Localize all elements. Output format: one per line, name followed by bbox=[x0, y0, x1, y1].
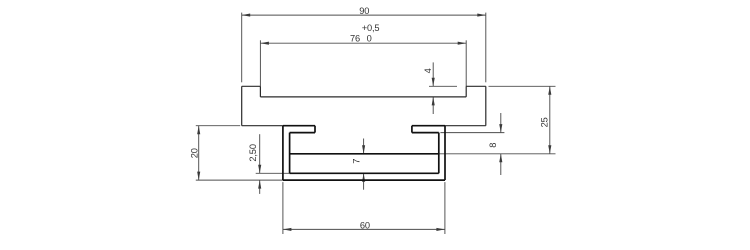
svg-text:4: 4 bbox=[423, 68, 433, 73]
channel outer right wall bbox=[444, 126, 446, 180]
svg-text:25: 25 bbox=[540, 117, 550, 127]
channel outer left wall bbox=[282, 126, 284, 180]
right lip underside bbox=[412, 132, 439, 134]
svg-text:7: 7 bbox=[352, 159, 362, 164]
dim 90 extension line right bbox=[485, 13, 487, 83]
groove right wall bbox=[465, 86, 467, 97]
dim 25/8 extension line bottom bbox=[439, 153, 556, 155]
dim 8 leader lower bbox=[500, 154, 502, 175]
left lip edge bbox=[314, 126, 316, 133]
arrow 90 right bbox=[477, 14, 486, 17]
dim 2,50 extension line bbox=[256, 172, 290, 174]
channel inner floor bbox=[290, 172, 439, 174]
dim 25 extension line top bbox=[489, 85, 556, 87]
svg-text:60: 60 bbox=[360, 221, 370, 231]
arrow 25 bottom (down) bbox=[548, 145, 551, 154]
dim 90 extension line left bbox=[241, 13, 243, 83]
arrow 20 top (up) bbox=[197, 126, 200, 135]
arrow 4 upper (down) bbox=[432, 78, 435, 87]
arrow 20 bottom (down) bbox=[197, 172, 200, 181]
dim 60 extension line left bbox=[282, 182, 284, 234]
arrow 8 lower (up) bbox=[499, 154, 502, 163]
dim 60 line bbox=[283, 228, 445, 230]
arrow 60 right bbox=[436, 228, 445, 231]
plate left edge bbox=[241, 86, 243, 125]
dim 7 leader lower bbox=[363, 173, 365, 189]
plate right edge bbox=[485, 86, 487, 125]
svg-text:20: 20 bbox=[190, 148, 200, 158]
arrow 76 right bbox=[458, 42, 467, 45]
channel top right edge bbox=[412, 125, 445, 127]
groove left wall bbox=[259, 86, 261, 97]
svg-text:8: 8 bbox=[488, 143, 498, 148]
dim 8 leader upper bbox=[500, 113, 502, 133]
left lip underside bbox=[290, 132, 315, 134]
arrow 7 upper (down) bbox=[362, 145, 365, 154]
dim 7 leader upper bbox=[363, 139, 365, 154]
dim 76 extension line right bbox=[465, 40, 467, 86]
channel top left edge bbox=[283, 125, 315, 127]
plate bottom right segment bbox=[445, 125, 486, 127]
groove floor bbox=[260, 96, 466, 98]
svg-text:90: 90 bbox=[359, 6, 369, 16]
arrow 2,50 lower (up) bbox=[258, 180, 261, 189]
dim 2,50 leader lower bbox=[259, 180, 261, 194]
dim 90 line bbox=[242, 14, 486, 16]
arrow 90 left bbox=[242, 14, 251, 17]
dim 2,50 leader upper bbox=[259, 134, 261, 173]
dim 20 extension line top bbox=[196, 125, 240, 127]
dim 60 extension line right bbox=[444, 182, 446, 234]
channel inner right wall bbox=[438, 133, 440, 174]
arrow 4 lower (up) bbox=[432, 97, 435, 106]
arrow 7 lower (up) bbox=[362, 173, 365, 182]
dim 76 extension line left bbox=[259, 40, 261, 86]
svg-text:0: 0 bbox=[367, 33, 372, 43]
right lip edge bbox=[411, 126, 413, 133]
dim 8 extension line bbox=[440, 132, 504, 134]
plate top-left ledge bbox=[242, 85, 261, 87]
dim 20 extension line bottom bbox=[196, 179, 283, 181]
svg-text:2,50: 2,50 bbox=[248, 144, 258, 162]
dim 4 leader upper bbox=[432, 62, 434, 86]
arrow 25 top (up) bbox=[548, 86, 551, 95]
arrow 2,50 upper (down) bbox=[258, 165, 261, 174]
dim 4 extension line bbox=[429, 85, 457, 87]
svg-text:+0,5: +0,5 bbox=[362, 23, 380, 33]
channel inner left wall bbox=[289, 133, 291, 174]
svg-text:76: 76 bbox=[350, 33, 360, 43]
arrow 76 left bbox=[260, 42, 269, 45]
dim 25 line bbox=[549, 86, 551, 154]
dim 20 line bbox=[198, 126, 200, 180]
arrow 8 upper (down) bbox=[499, 124, 502, 133]
dim 76 line bbox=[260, 42, 466, 44]
dim 4 leader lower bbox=[432, 97, 434, 114]
channel outer bottom bbox=[283, 179, 445, 181]
channel inner ledge line bbox=[290, 153, 439, 155]
arrow 60 left bbox=[283, 228, 292, 231]
plate bottom left segment bbox=[242, 125, 283, 127]
plate top-right ledge bbox=[466, 85, 486, 87]
